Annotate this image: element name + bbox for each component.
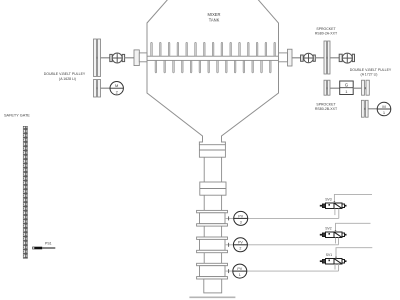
shaft stub out of tank (279, 53, 288, 62)
bottom paddles (14) (155, 60, 271, 73)
svg-text:(A 1628 Li): (A 1628 Li) (59, 77, 76, 81)
svg-text:M: M (115, 83, 118, 88)
pinch valve actuators PV1-PV3 (225, 211, 339, 278)
PV2 (225, 244, 339, 246)
hub (288, 49, 293, 66)
pipe segment (203, 226, 205, 237)
svg-text:2: 2 (239, 247, 241, 251)
svg-text:DOUBLE V-BELT PULLEY: DOUBLE V-BELT PULLEY (350, 68, 392, 72)
sprocket B (324, 80, 330, 95)
pinch valve 2 (197, 237, 228, 239)
shaft line to bearing (101, 57, 110, 59)
hub (134, 50, 139, 66)
pinch valve 3 (197, 263, 228, 265)
svg-text:DOUBLE V-BELT PULLEY: DOUBLE V-BELT PULLEY (44, 72, 86, 76)
svg-text:MIXER: MIXER (208, 12, 221, 17)
svg-text:RS80-2A-XXT: RS80-2A-XXT (315, 31, 338, 35)
svg-text:(A 1727 Li): (A 1727 Li) (361, 73, 378, 77)
svg-text:SPROCKET: SPROCKET (316, 27, 336, 31)
svg-text:G: G (345, 83, 349, 88)
ground line (189, 296, 235, 298)
svg-text:SV1: SV1 (326, 253, 333, 257)
flange 2 (200, 182, 226, 195)
svg-text:RS80-2B-XXT: RS80-2B-XXT (315, 107, 338, 111)
tank shell left: slant + wall + funnel + neck lip (147, 0, 203, 145)
shaft to hub (125, 57, 134, 59)
PV1 (225, 270, 339, 272)
bearing left (110, 53, 125, 63)
top paddles (15) (151, 42, 276, 56)
discharge pipe column (197, 145, 228, 293)
double V-belt pulley (big) (94, 39, 101, 77)
shaft stub into tank (139, 53, 147, 62)
svg-text:SV3: SV3 (325, 198, 332, 202)
pinch valve 1 (197, 210, 228, 212)
pulley D (361, 100, 368, 117)
pipe segment (203, 195, 205, 210)
svg-text:PV: PV (238, 241, 243, 245)
SV1 (320, 248, 373, 271)
motor M1 (377, 102, 391, 116)
svg-text:M: M (382, 104, 385, 109)
sprocket A (324, 41, 330, 74)
svg-text:3: 3 (240, 220, 242, 224)
bearing right 1 (301, 53, 316, 63)
svg-text:SV2: SV2 (325, 227, 332, 231)
svg-text:PV: PV (238, 214, 243, 218)
pulley C (362, 80, 370, 95)
svg-text:1: 1 (239, 273, 241, 277)
mixer tank shell (147, 0, 279, 145)
neck flange (199, 145, 225, 158)
tank shell right (222, 0, 279, 145)
svg-text:TANK: TANK (209, 17, 220, 22)
bottom pipe (204, 279, 222, 293)
pipe segment (203, 157, 205, 182)
motor M2 (110, 82, 123, 95)
shaft band (147, 56, 279, 60)
SV3 (320, 194, 372, 218)
svg-text:SAFETY GATE: SAFETY GATE (4, 114, 30, 118)
svg-text:PV: PV (237, 267, 242, 271)
svg-text:PS1: PS1 (45, 242, 52, 246)
bearing right 2 (339, 53, 354, 63)
PV3 (225, 217, 339, 219)
svg-text:SPROCKET: SPROCKET (316, 102, 336, 106)
gearbox G1 (340, 81, 354, 95)
shaft to motor M2 (101, 87, 111, 89)
pipe segment (203, 253, 205, 264)
small pulley (motor side) (94, 80, 101, 98)
SV2 (320, 223, 371, 245)
